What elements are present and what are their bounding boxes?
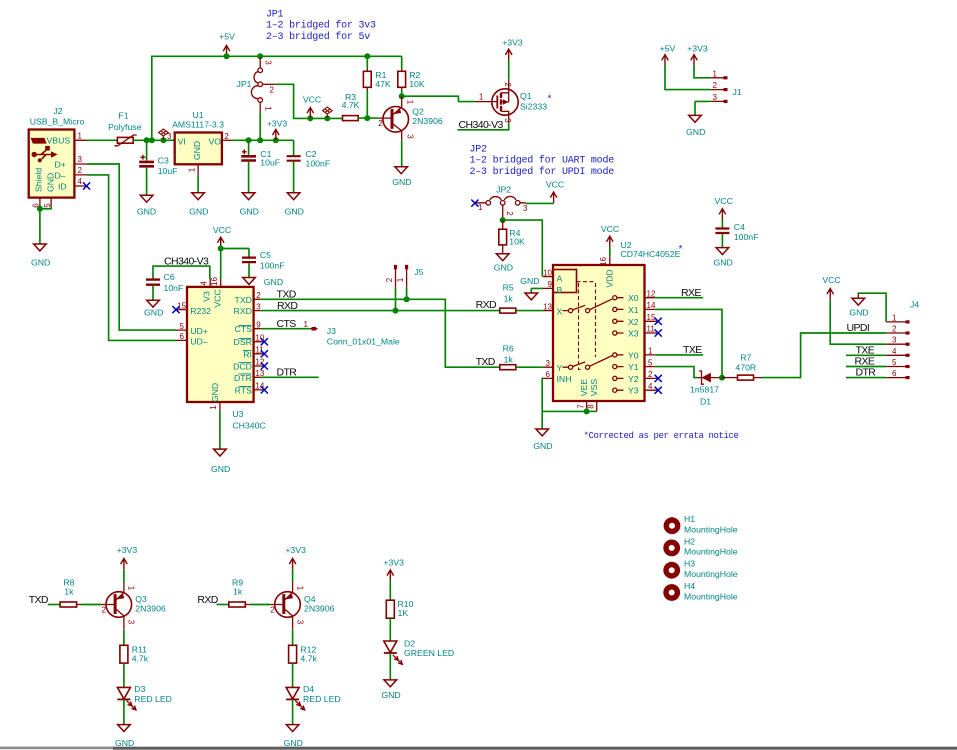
wire CH340-V3 label line to C6 and U3 pin4 <box>153 266 210 279</box>
junction J2 shield gnd <box>37 206 43 212</box>
power flag at U1 VI <box>159 129 169 140</box>
svg-text:1: 1 <box>892 313 897 322</box>
wire +5V to J1 pin2 <box>665 66 710 90</box>
fuse F1 Polyfuse <box>108 110 141 146</box>
resistor R5 1k <box>500 283 543 314</box>
resistor R3 4.7K <box>342 92 360 120</box>
svg-text:2: 2 <box>503 82 512 87</box>
wire +3V3 to Q4 emitter <box>292 569 294 582</box>
svg-text:2: 2 <box>648 370 653 379</box>
svg-text:GND: GND <box>144 307 163 317</box>
svg-text:MountingHole: MountingHole <box>684 547 738 557</box>
wire J5 pin2 to RXD row <box>395 287 397 310</box>
svg-text:+3V3: +3V3 <box>502 38 523 48</box>
svg-text:10uF: 10uF <box>158 166 178 176</box>
svg-text:X3: X3 <box>628 329 639 339</box>
no-connect X on U3 pin15 <box>172 306 179 313</box>
svg-text:1n5817: 1n5817 <box>690 385 719 395</box>
wire +3V3 to Q3 emitter <box>123 569 125 582</box>
sheet border bottom <box>0 747 957 750</box>
junction +5V rail at arrow <box>224 53 230 59</box>
svg-text:GND: GND <box>284 738 303 748</box>
wire +3V3 to R10 <box>389 581 391 600</box>
svg-text:GND: GND <box>210 383 220 402</box>
svg-text:15: 15 <box>177 301 186 310</box>
svg-text:VBUS: VBUS <box>47 136 71 146</box>
svg-text:1: 1 <box>479 93 484 102</box>
junction PWR_FLAG tap at VI <box>160 137 166 143</box>
svg-text:GND: GND <box>849 308 868 318</box>
svg-text:3: 3 <box>127 620 136 625</box>
no-connect X on U3 pin14 <box>261 386 268 393</box>
power VCC at JP2 pin3 <box>546 180 564 203</box>
power VCC above U3 <box>213 225 231 248</box>
svg-text:Conn_01x01_Male: Conn_01x01_Male <box>327 337 400 347</box>
svg-text:1: 1 <box>127 586 136 591</box>
junction R2 bottom / Q2 emitter / Q1 gate <box>399 93 405 99</box>
wire DTR stub J4 pin6 <box>846 377 886 379</box>
svg-text:16: 16 <box>599 257 608 266</box>
jumper JP1 <box>237 58 276 113</box>
svg-text:+3V3: +3V3 <box>687 44 708 54</box>
svg-text:H3: H3 <box>684 559 695 569</box>
svg-text:GND: GND <box>520 276 539 286</box>
svg-text:CH340-V3: CH340-V3 <box>459 119 504 131</box>
wire U1 VO to +3V3 row <box>232 139 294 141</box>
wire J2 shield bracket to GND <box>40 206 51 244</box>
wire J2 D+ to U3 UD+ <box>87 164 176 330</box>
svg-text:7: 7 <box>576 404 585 409</box>
svg-text:3: 3 <box>503 118 512 123</box>
wire TXD row from U3 pin2 <box>261 299 500 367</box>
svg-text:GND: GND <box>392 177 411 187</box>
svg-text:R232: R232 <box>190 306 211 316</box>
mounting hole H1 <box>664 514 738 535</box>
svg-text:VO: VO <box>209 136 222 146</box>
svg-text:J4: J4 <box>910 300 919 310</box>
svg-text:VDD: VDD <box>605 269 615 287</box>
wire Q2 collector to GND <box>401 141 403 167</box>
svg-text:5: 5 <box>892 358 897 367</box>
power +5V (top) <box>219 32 235 57</box>
wire U2 pin5 Y1 to D1 anode <box>655 367 698 378</box>
svg-text:C6: C6 <box>164 272 175 282</box>
wire VBUS to fuse <box>87 139 118 141</box>
svg-text:X0: X0 <box>628 293 639 303</box>
svg-text:2: 2 <box>102 605 107 614</box>
power +3V3 above Q3 <box>117 545 138 569</box>
svg-text:10uF: 10uF <box>260 157 280 167</box>
ground GND below C6 <box>144 300 163 317</box>
svg-text:5: 5 <box>648 358 653 367</box>
svg-text:VCC: VCC <box>303 95 321 105</box>
svg-text:J3: J3 <box>327 326 336 336</box>
diode D1 1n5817 (schottky) <box>690 371 722 407</box>
svg-text:10K: 10K <box>409 79 425 89</box>
power +3V3 (at U1 output) <box>267 119 288 141</box>
svg-text:RED LED: RED LED <box>303 694 341 704</box>
capacitor C6 10nF <box>146 272 183 300</box>
ground GND below Q2 <box>392 167 411 187</box>
transistor Q2 2N3906 <box>378 96 443 141</box>
ground GND at J4 pin1 <box>849 293 868 317</box>
svg-text:RXD: RXD <box>234 306 252 316</box>
ground GND below D4 <box>284 725 303 748</box>
svg-text:TXD: TXD <box>235 295 252 305</box>
svg-text:*: * <box>678 245 684 257</box>
ground GND at U2 pin9 B <box>520 276 543 300</box>
wire Q4 collector to R12 <box>292 629 294 645</box>
junction VCC arrow tap <box>307 115 313 121</box>
ground GND below C1 <box>240 193 259 217</box>
junction D1 / R7 / X1 <box>719 375 725 381</box>
resistor R1 47K <box>363 56 391 118</box>
svg-text:2: 2 <box>270 605 275 614</box>
svg-text:Y3: Y3 <box>628 386 639 396</box>
LED D2 GREEN <box>384 639 454 665</box>
svg-text:1: 1 <box>78 132 83 141</box>
svg-text:F1: F1 <box>118 110 128 120</box>
svg-text:RED LED: RED LED <box>134 694 172 704</box>
no-connect X on U2 pin4 <box>655 387 662 394</box>
svg-text:JP2: JP2 <box>496 184 511 194</box>
junction +5V rail at R1 <box>364 53 370 59</box>
wire R11 to D3 <box>123 663 125 687</box>
wire fuse to U1 VI <box>133 139 175 141</box>
svg-text:CH340C: CH340C <box>232 420 265 430</box>
svg-text:100nF: 100nF <box>260 260 285 270</box>
resistor R8 1k <box>60 578 81 607</box>
power VCC at J4 <box>822 275 840 300</box>
svg-text:10: 10 <box>543 268 552 277</box>
svg-text:CD74HC4052E: CD74HC4052E <box>621 249 681 259</box>
connector J5 <box>385 265 424 288</box>
svg-text:2: 2 <box>378 119 383 128</box>
svg-text:GND: GND <box>264 277 283 287</box>
capacitor C2 100nF <box>287 140 331 192</box>
junction VCC / C5 <box>218 246 224 252</box>
svg-text:TXD: TXD <box>476 356 496 368</box>
connector J2 USB_B_Micro <box>29 106 87 208</box>
svg-text:GND: GND <box>115 738 134 748</box>
svg-text:4: 4 <box>200 281 209 286</box>
svg-text:1: 1 <box>209 405 218 410</box>
svg-text:VEE: VEE <box>579 379 589 397</box>
svg-text:1: 1 <box>648 347 653 356</box>
svg-text:1k: 1k <box>233 587 243 597</box>
svg-text:D3: D3 <box>134 684 145 694</box>
svg-text:R5: R5 <box>503 283 514 293</box>
svg-text:GND: GND <box>533 441 552 451</box>
wire U2 INH/VEE/VSS to GND <box>542 378 597 429</box>
no-connect X on J2 pin ID <box>83 182 90 189</box>
IC U2 CD74HC4052E <box>543 240 681 412</box>
wire RXE stub J4 pin5 <box>846 366 886 368</box>
svg-text:4: 4 <box>648 382 653 391</box>
svg-text:Y: Y <box>557 363 563 373</box>
svg-text:3: 3 <box>295 620 304 625</box>
IC U3 CH340C <box>176 277 266 431</box>
ground GND below C3 <box>137 195 156 216</box>
no-connect X on U3 pin11 <box>261 350 268 357</box>
svg-text:Si2333: Si2333 <box>520 102 547 112</box>
svg-text:X: X <box>557 306 563 316</box>
svg-text:VCC: VCC <box>715 196 733 206</box>
svg-text:V3: V3 <box>202 291 212 302</box>
wire GND to J1 pin3 <box>695 101 710 115</box>
transistor Q1 Si2333 (P-MOSFET) <box>475 80 547 124</box>
svg-text:1K: 1K <box>398 608 409 618</box>
svg-text:GND: GND <box>46 173 56 192</box>
svg-text:JP1: JP1 <box>237 79 252 89</box>
svg-text:3: 3 <box>892 336 897 345</box>
power +3V3 (J1) <box>687 44 708 66</box>
svg-text:1k: 1k <box>504 354 514 364</box>
svg-text:100nF: 100nF <box>734 232 759 242</box>
svg-text:100nF: 100nF <box>306 158 331 168</box>
ground GND below R4 <box>494 254 513 273</box>
svg-text:47K: 47K <box>375 79 391 89</box>
ground GND below D2 <box>381 680 400 700</box>
wire RXE stub from U2 pin12 <box>655 297 703 299</box>
svg-text:VCC: VCC <box>546 180 564 190</box>
svg-text:13: 13 <box>543 302 552 311</box>
resistor R11 4.7k <box>120 645 149 664</box>
svg-text:+3V3: +3V3 <box>383 558 404 568</box>
mounting hole H3 <box>663 559 737 580</box>
power +5V (J1) <box>660 44 676 66</box>
svg-text:10nF: 10nF <box>164 283 184 293</box>
ground GND below C4 <box>713 248 732 268</box>
power VCC (regulator select) <box>303 95 321 119</box>
svg-text:ID: ID <box>58 181 67 191</box>
ground GND below C5 <box>243 277 283 287</box>
svg-text:H4: H4 <box>684 581 695 591</box>
svg-text:1: 1 <box>188 167 197 172</box>
junction J5 pin2 / RXD <box>393 308 399 314</box>
svg-text:GND: GND <box>31 258 50 268</box>
svg-text:J1: J1 <box>733 87 742 97</box>
svg-text:8: 8 <box>587 404 596 409</box>
svg-text:GND: GND <box>192 141 202 160</box>
wire JP1 pin1 to +3V3 row <box>259 112 261 140</box>
svg-text:U3: U3 <box>232 409 243 419</box>
svg-text:H2: H2 <box>684 536 695 546</box>
power flag at VCC <box>323 107 333 118</box>
svg-text:Polyfuse: Polyfuse <box>108 122 141 132</box>
svg-text:1: 1 <box>478 203 483 212</box>
svg-text:9: 9 <box>256 320 261 329</box>
wire TXE stub from U2 pin1 <box>655 354 703 356</box>
wire RXD to R9 <box>217 604 229 606</box>
svg-text:4.7k: 4.7k <box>132 654 149 664</box>
svg-text:GND: GND <box>211 464 230 474</box>
wire D3 to GND <box>123 699 125 724</box>
svg-text:UD+: UD+ <box>190 326 208 336</box>
svg-text:3: 3 <box>78 155 83 164</box>
transistor Q3 2N3906 <box>101 582 166 629</box>
svg-text:4.7k: 4.7k <box>300 654 317 664</box>
svg-text:4: 4 <box>78 177 83 186</box>
junction C3 tap <box>144 137 150 143</box>
ground GND below U2 <box>533 429 552 451</box>
svg-text:C3: C3 <box>158 156 169 166</box>
wire GND to J4 pin1 <box>858 293 886 322</box>
junction PWR_FLAG tap at VCC <box>324 115 330 121</box>
svg-text:2: 2 <box>713 81 718 90</box>
svg-text:3: 3 <box>405 134 414 139</box>
wire +5V top rail <box>152 56 402 140</box>
wire JP2 pin3 to VCC <box>526 202 554 205</box>
wire R7 to UPDI row (J4 pin2) <box>762 333 886 378</box>
svg-text:D+: D+ <box>55 160 66 170</box>
junction VEE gnd wire <box>584 408 590 414</box>
ground GND below J1 <box>686 115 705 136</box>
wire J5 pin1 to TXD row <box>406 287 408 299</box>
svg-text:JP1: JP1 <box>266 9 284 20</box>
svg-text:2N3906: 2N3906 <box>412 116 443 126</box>
svg-text:1k: 1k <box>504 293 514 303</box>
svg-text:GND: GND <box>240 207 259 217</box>
wire U2 pin14 X1 to D1 junction <box>655 309 722 377</box>
svg-text:A: A <box>557 273 563 283</box>
svg-text:1–2 bridged for UART mode: 1–2 bridged for UART mode <box>470 155 615 167</box>
svg-text:USB_B_Micro: USB_B_Micro <box>30 117 85 127</box>
wire J2 D- to U3 UD- <box>87 175 176 341</box>
svg-text:VI: VI <box>178 136 186 146</box>
svg-text:*Corrected as per errata notic: *Corrected as per errata notice <box>584 431 739 441</box>
svg-text:Y1: Y1 <box>628 362 639 372</box>
svg-text:2: 2 <box>270 85 275 94</box>
svg-text:GND: GND <box>713 257 732 267</box>
wire RXD row from U3 pin3 <box>261 310 500 312</box>
svg-text:11: 11 <box>647 325 656 334</box>
regulator U1 AMS1117-3.3 <box>167 110 232 175</box>
ground GND below D3 <box>115 725 134 748</box>
svg-text:3: 3 <box>546 359 551 368</box>
resistor R12 4.7k <box>289 645 318 664</box>
wire TXE stub J4 pin4 <box>846 354 886 356</box>
svg-text:C5: C5 <box>260 250 271 260</box>
svg-text:14: 14 <box>647 301 656 310</box>
svg-text:D–: D– <box>55 170 66 180</box>
no-connect X on JP2 pin1 <box>471 200 478 207</box>
ground GND below U3 <box>211 449 230 474</box>
svg-text:*: * <box>547 94 553 106</box>
svg-text:X1: X1 <box>628 305 639 315</box>
svg-text:VCC: VCC <box>822 275 840 285</box>
svg-text:3: 3 <box>256 302 261 311</box>
wire +3V3 to Q1 drain <box>508 60 510 80</box>
svg-text:+3V3: +3V3 <box>285 545 306 555</box>
svg-text:4: 4 <box>892 347 897 356</box>
svg-text:2: 2 <box>385 277 394 282</box>
svg-text:UD–: UD– <box>190 337 208 347</box>
svg-text:3: 3 <box>167 132 172 141</box>
svg-text:MountingHole: MountingHole <box>684 592 738 602</box>
svg-text:GND: GND <box>381 690 400 700</box>
no-connect X on U2 pin15 <box>655 318 662 325</box>
svg-text:Y0: Y0 <box>628 350 639 360</box>
svg-text:AMS1117-3.3: AMS1117-3.3 <box>172 120 224 130</box>
capacitor C3 10uF <box>139 140 177 195</box>
junction +3V3 arrow tap <box>273 137 279 143</box>
wire D2 to GND <box>389 653 391 680</box>
junction JP2 pin2 / R4 <box>500 217 506 223</box>
svg-text:2N3906: 2N3906 <box>135 603 166 613</box>
svg-text:1: 1 <box>264 106 273 111</box>
svg-text:GREEN LED: GREEN LED <box>404 648 454 658</box>
svg-text:J2: J2 <box>53 106 62 116</box>
wire JP1 pin2 to VCC row <box>276 84 343 118</box>
wire R3 to Q2 base <box>358 117 378 119</box>
connector J3 Conn_01x01_Male <box>304 320 400 346</box>
svg-text:3: 3 <box>713 93 718 102</box>
LED D3 RED <box>117 684 172 710</box>
wire R12 to D4 <box>292 663 294 687</box>
wire DTR stub from U3 pin13 <box>261 376 319 378</box>
svg-text:470R: 470R <box>735 363 756 373</box>
wire VCC to J4 pin3 <box>830 299 886 344</box>
svg-text:1–2 bridged for 3v3: 1–2 bridged for 3v3 <box>266 20 376 32</box>
svg-text:2–3 bridged for 5v: 2–3 bridged for 5v <box>266 31 370 43</box>
junction JP1 pin1 tap <box>257 137 263 143</box>
svg-text:3: 3 <box>264 60 273 65</box>
svg-text:RXD: RXD <box>197 594 218 606</box>
svg-text:VCC: VCC <box>601 224 619 234</box>
svg-text:9: 9 <box>548 280 553 289</box>
no-connect X on U3 pin12 <box>261 362 268 369</box>
wire +3V3 to J1 pin1 <box>694 66 710 78</box>
capacitor C5 100nF <box>242 249 285 278</box>
svg-text:GND: GND <box>137 207 156 217</box>
wire CTS to J3 <box>261 328 310 330</box>
power +3V3 above Q4 <box>285 545 306 569</box>
svg-text:15: 15 <box>647 313 656 322</box>
wire JP2 pin2 to U2 A select <box>503 218 543 277</box>
connector J1 <box>710 69 742 103</box>
svg-text:+3V3: +3V3 <box>267 119 288 129</box>
ground GND below C2 <box>285 193 304 217</box>
wire U3 GND pin down <box>219 411 221 449</box>
no-connect X on U3 pin10 <box>261 338 268 345</box>
svg-text:2: 2 <box>78 166 83 175</box>
svg-text:R7: R7 <box>740 353 751 363</box>
svg-text:Shield: Shield <box>34 168 44 192</box>
svg-text:D1: D1 <box>700 397 711 407</box>
svg-text:16: 16 <box>210 277 219 286</box>
svg-text:RXD: RXD <box>476 299 497 311</box>
wire Q3 collector to R11 <box>123 629 125 645</box>
power VCC above U2 <box>601 224 619 247</box>
svg-text:TXD: TXD <box>29 594 49 606</box>
svg-text:MountingHole: MountingHole <box>684 569 738 579</box>
wire D4 to GND <box>292 699 294 724</box>
wire R8 to Q3 base <box>81 604 101 606</box>
svg-text:2–3 bridged for UPDI mode: 2–3 bridged for UPDI mode <box>470 166 615 178</box>
wire U1 GND pin down <box>197 175 199 193</box>
junction C1 tap <box>246 137 252 143</box>
svg-text:X2: X2 <box>628 317 639 327</box>
svg-text:1: 1 <box>713 69 718 78</box>
resistor R10 1K <box>386 599 413 618</box>
svg-text:GND: GND <box>494 263 513 273</box>
svg-text:Y2: Y2 <box>628 374 639 384</box>
LED D4 RED <box>286 684 341 710</box>
svg-text:JP2: JP2 <box>470 144 488 155</box>
transistor Q4 2N3906 <box>270 582 335 629</box>
svg-text:INH: INH <box>557 374 572 384</box>
